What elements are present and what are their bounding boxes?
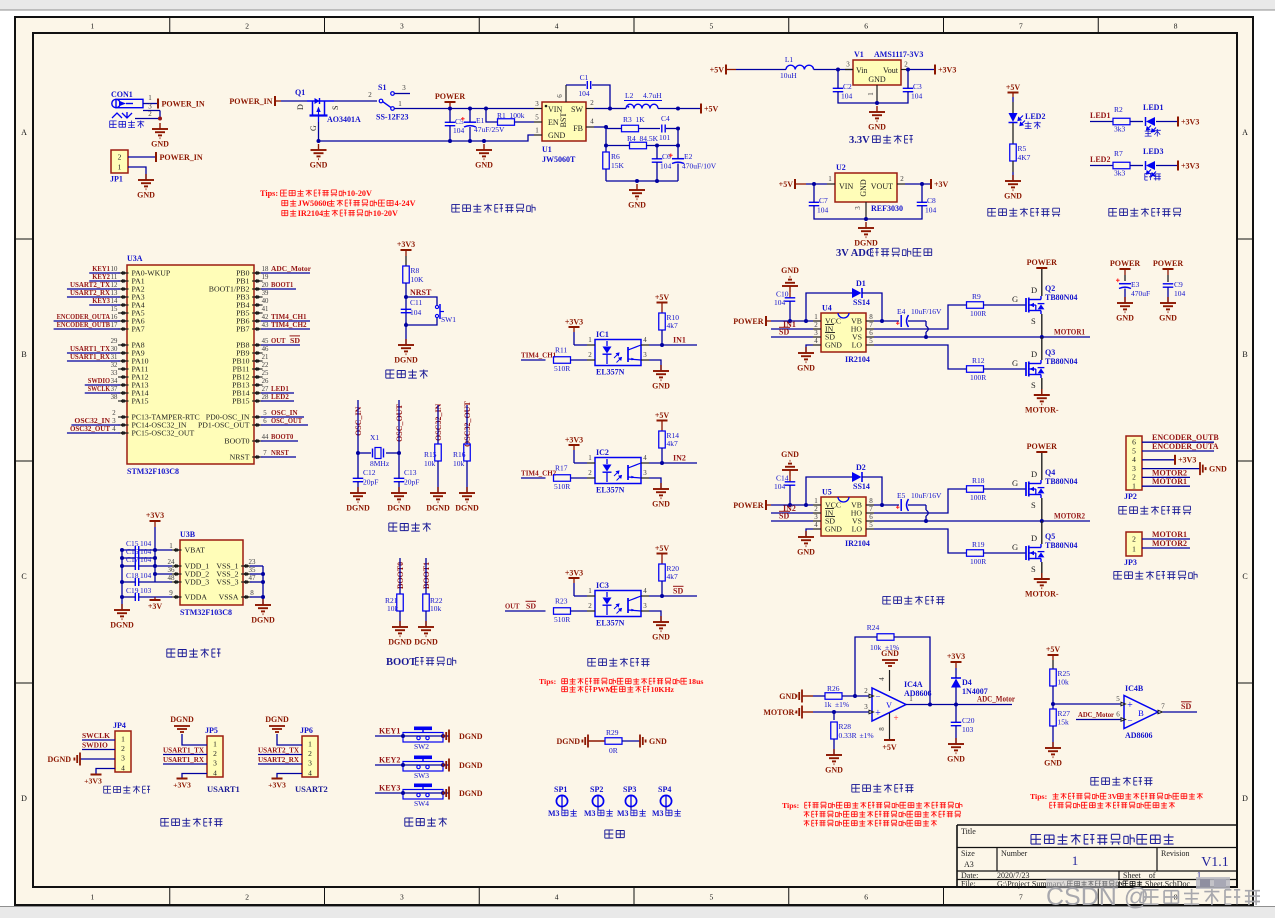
svg-text:DGND: DGND [455, 504, 479, 513]
svg-text:+3V3: +3V3 [173, 781, 191, 790]
svg-text:CSDN @: CSDN @ [1046, 883, 1149, 911]
svg-text:100R: 100R [970, 557, 986, 566]
mcu pin 23 VSS_1 [216, 558, 256, 571]
mcu pin 15 PA5 [111, 306, 145, 318]
svg-text:GND: GND [781, 450, 799, 459]
svg-text:R2: R2 [1114, 105, 1123, 114]
svg-text:LO: LO [852, 525, 863, 534]
label 电机驱动电路 [883, 596, 945, 605]
svg-text:G: G [309, 125, 318, 131]
pin 3 U4 [813, 329, 821, 337]
wire JP5 pin1 to DGND [182, 734, 207, 745]
pin 1 IC4A output [906, 695, 1012, 705]
svg-text:LO: LO [852, 341, 863, 350]
mcu pin 48 VDD_3 [168, 574, 210, 587]
power port +3V3 status led1 [1178, 117, 1199, 127]
svg-text:3V: 3V [1108, 792, 1118, 801]
transistor Q2 TB80N04 high side [1026, 284, 1077, 326]
wire Q1 source to S1 [334, 100, 377, 102]
pin 4 FB [586, 118, 606, 128]
svg-text:LED2: LED2 [1025, 112, 1045, 121]
junction D diode branch [804, 319, 808, 323]
wire Q2 drain to POWER [1041, 268, 1043, 296]
svg-text:101: 101 [659, 133, 671, 142]
wire SW4 to DGND [443, 792, 449, 794]
pin 1 wire CON1 [143, 94, 157, 104]
svg-text:2: 2 [900, 175, 904, 183]
ground GND under U5 [797, 531, 815, 557]
pin 3 wire CON1 [143, 103, 160, 111]
capacitor C9 104 [1163, 280, 1186, 303]
svg-text:JP4: JP4 [113, 721, 126, 730]
mcu pin 18 PB0 [236, 264, 311, 278]
svg-text:+5V: +5V [1046, 645, 1061, 654]
voltage reference U2 REF3030 [835, 163, 903, 213]
svg-text:B: B [1242, 350, 1247, 359]
svg-text:GND: GND [825, 766, 843, 775]
svg-text:48: 48 [168, 574, 176, 582]
ground DGND R16 [455, 487, 479, 513]
svg-text:18us: 18us [688, 677, 703, 686]
power port POWER at C9 [1153, 259, 1183, 282]
junction VS bootstrap [924, 519, 928, 523]
ground DGND R22 [414, 621, 438, 647]
ground GND IC3 [652, 616, 670, 642]
svg-text:VIN: VIN [548, 105, 562, 114]
ground MOTOR- under Q5 [1025, 573, 1059, 599]
svg-text:CON1: CON1 [111, 90, 133, 99]
capacitor C8 104 [866, 184, 937, 219]
wire E5 to VS with hop [908, 505, 928, 521]
ground GND op-amp pin4 [881, 649, 899, 666]
label 程序下载口 [104, 786, 150, 794]
svg-text:VBAT: VBAT [185, 546, 206, 555]
junction rail C5 [448, 139, 452, 143]
junction D4 output node [954, 703, 958, 707]
net label OSC32_IN vertical [434, 403, 443, 444]
junction VB node [880, 319, 884, 323]
svg-text:IR2104: IR2104 [845, 539, 870, 548]
net label MOTOR1 JP3 [1142, 530, 1190, 539]
svg-text:2: 2 [814, 321, 818, 329]
svg-text:MOTOR-: MOTOR- [1025, 406, 1059, 415]
svg-text:GND: GND [797, 364, 815, 373]
wire Q3 source down [1041, 378, 1043, 395]
svg-text:D: D [1031, 533, 1037, 543]
junction R4 left [604, 144, 608, 148]
svg-text:MOTOR1: MOTOR1 [1054, 328, 1085, 337]
svg-text:7: 7 [1019, 893, 1023, 902]
svg-text:+3V: +3V [934, 180, 949, 189]
svg-text:3: 3 [814, 329, 818, 337]
svg-text:+3V3: +3V3 [84, 777, 102, 786]
svg-text:TIM4_CH1: TIM4_CH1 [521, 351, 556, 360]
svg-text:D1: D1 [856, 279, 866, 288]
svg-text:SD: SD [526, 602, 537, 611]
svg-text:6: 6 [1116, 711, 1120, 719]
svg-text:BOOT: BOOT [386, 657, 416, 668]
svg-text:KEY2: KEY2 [379, 756, 400, 765]
svg-text:DGND: DGND [110, 621, 134, 630]
svg-text:M3: M3 [584, 809, 596, 818]
svg-text:9: 9 [169, 589, 173, 597]
switch SW3 push button [403, 756, 443, 781]
svg-text:TIM4_CH2: TIM4_CH2 [271, 320, 307, 329]
junction SW2 left [401, 734, 405, 738]
svg-text:DGND: DGND [459, 761, 483, 770]
pin 3 IC3 [641, 602, 661, 622]
transistor Q1 AO3401A P-MOSFET [295, 88, 361, 131]
svg-text:3: 3 [400, 22, 404, 31]
svg-text:3: 3 [1132, 464, 1136, 473]
svg-text:E4: E4 [897, 307, 906, 316]
junction gnd rail C6 [655, 179, 659, 183]
mcu pin 31 PA10 [67, 352, 149, 366]
standoff SP4 M3 [652, 785, 681, 818]
ground GND at JP1 [137, 174, 155, 200]
svg-text:Tips:: Tips: [782, 801, 803, 810]
optocoupler IC1 EL357N [595, 330, 641, 377]
svg-text:DGND: DGND [556, 737, 580, 746]
ground DGND SW2 sideways [443, 730, 482, 743]
power port +3V3 JP4 [84, 775, 102, 786]
svg-text:IC2: IC2 [596, 448, 609, 457]
power port +3V3 IC2 [565, 436, 583, 464]
title 直流电机双闭环控制系统 [1031, 834, 1174, 845]
pin 6 BST [556, 85, 566, 102]
wire Q2 source to VS line [1041, 314, 1043, 337]
label G gate Q5 [1012, 542, 1018, 552]
mcu pin 42 PB6 [236, 312, 310, 326]
mcu pin 19 PB1 [236, 274, 269, 286]
pin 1 U4 [813, 313, 821, 321]
net label KEY3 [375, 784, 403, 794]
svg-text:IC4B: IC4B [1125, 684, 1144, 693]
svg-text:3: 3 [854, 206, 862, 210]
svg-text:8: 8 [869, 313, 873, 321]
pin 5 U4 [866, 337, 874, 345]
junction SW3 right [441, 763, 445, 767]
op-amp IC4A AD8606 [872, 680, 932, 723]
svg-text:S: S [331, 106, 340, 110]
pin 1 IC1 [587, 336, 595, 345]
mcu pin 37 PA14 [85, 384, 149, 398]
svg-text:C12: C12 [363, 468, 376, 477]
capacitor E1 47uF/25V electrolytic [461, 109, 505, 142]
svg-text:104: 104 [925, 206, 937, 215]
resistor R14 4k7 [659, 431, 680, 463]
svg-text:470uF/10V: 470uF/10V [682, 162, 717, 171]
resistor R24 10k feedback [867, 623, 899, 652]
svg-text:OUT: OUT [505, 602, 520, 611]
svg-text:+: + [875, 708, 881, 719]
svg-text:DGND: DGND [387, 504, 411, 513]
mcu pin 3 PC14-OSC32_IN [71, 416, 186, 430]
power port +3V3 JP5 [173, 779, 191, 790]
svg-text:E1: E1 [476, 116, 485, 125]
svg-text:8: 8 [1174, 22, 1178, 31]
wire Q5 drain to VS [1041, 521, 1043, 544]
svg-text:MOTOR1: MOTOR1 [1152, 477, 1187, 486]
svg-text:S1: S1 [378, 83, 386, 92]
mcu pin 17 PA7 [54, 320, 145, 334]
net label USART1_TX [163, 745, 207, 754]
resistor R10 4k7 [659, 313, 680, 345]
svg-text:10k: 10k [430, 604, 442, 613]
mcu pin 22 PB11 [232, 362, 269, 374]
svg-text:+3V3: +3V3 [1181, 118, 1199, 127]
junction FB node [604, 125, 608, 129]
svg-text:+3V3: +3V3 [146, 511, 164, 520]
net label OSC32_OUT vertical [463, 401, 472, 447]
svg-text:PD1-OSC_OUT: PD1-OSC_OUT [198, 421, 250, 430]
svg-text:M3: M3 [548, 809, 560, 818]
mcu U3B STM32F103C8 power part [180, 530, 243, 617]
svg-text:470uF: 470uF [1131, 289, 1150, 298]
label 3V ADC电压基准电路 [836, 248, 932, 259]
svg-text:LED2: LED2 [271, 392, 289, 401]
ground GND IC2 [652, 483, 670, 509]
svg-text:GND: GND [825, 341, 842, 350]
svg-text:SS14: SS14 [853, 482, 870, 491]
transistor Q3 TB80N04 low side [1026, 348, 1077, 390]
ground GND input sideways [779, 690, 813, 703]
diode D4 1N4007 [951, 668, 988, 705]
power port +5V op-amp [882, 740, 897, 752]
svg-text:POWER_IN: POWER_IN [160, 153, 203, 162]
connector JP3 dc motor [1124, 532, 1142, 567]
svg-text:5: 5 [263, 410, 267, 417]
svg-text:104: 104 [660, 162, 672, 171]
mcu pin 5 PD0-OSC_IN [206, 408, 304, 422]
pin 2 wire CON1 [135, 110, 160, 119]
svg-text:7: 7 [869, 321, 873, 329]
svg-text:2: 2 [1132, 473, 1136, 482]
standoff SP1 M3 [548, 785, 577, 818]
svg-text:C2: C2 [843, 82, 852, 91]
capacitor C7 104 [809, 184, 866, 219]
standoff SP3 M3 [617, 785, 646, 818]
wire Q5 source down [1041, 562, 1043, 579]
svg-text:2: 2 [368, 91, 372, 99]
svg-text:POWER: POWER [1027, 258, 1057, 267]
svg-text:USART1_RX: USART1_RX [163, 755, 204, 764]
wire VS line MOTOR+ [874, 336, 1090, 338]
svg-text:4: 4 [643, 454, 647, 462]
svg-text:USART2: USART2 [295, 784, 328, 794]
net label MOTOR- input [763, 706, 813, 719]
svg-text:U3B: U3B [180, 530, 196, 539]
pin 2 IC2 [587, 469, 595, 478]
svg-text:104: 104 [841, 92, 853, 101]
svg-text:LED3: LED3 [1143, 147, 1163, 156]
svg-text:PB7: PB7 [236, 325, 250, 334]
junction divider tap [1051, 702, 1055, 706]
svg-text:D2: D2 [856, 463, 866, 472]
svg-text:TIM4_CH2: TIM4_CH2 [521, 469, 556, 478]
svg-text:USART1_TX: USART1_TX [163, 745, 204, 754]
wire POWER_IN to Q1 source [281, 100, 307, 102]
svg-text:D: D [1031, 285, 1037, 295]
svg-text:5: 5 [869, 337, 873, 345]
svg-text:2: 2 [588, 602, 592, 610]
capacitor C15 104 [122, 539, 155, 554]
wire POWER to pin1 [790, 504, 813, 506]
svg-text:JP3: JP3 [1124, 558, 1137, 567]
svg-text:ADC_Motor: ADC_Motor [977, 695, 1015, 704]
svg-text:POWER_IN: POWER_IN [229, 97, 272, 106]
net label OUT_SD into IC3 [505, 601, 546, 611]
svg-text:100R: 100R [970, 309, 986, 318]
svg-text:JW5060t: JW5060t [298, 199, 330, 208]
label 电源降压模块电路 [452, 204, 535, 213]
svg-text:GND: GND [1209, 464, 1227, 473]
resistor R4 84.5K [606, 134, 678, 149]
svg-text:6: 6 [864, 22, 868, 31]
svg-text:SS14: SS14 [853, 298, 870, 307]
junction +3V3 rail [153, 548, 157, 552]
svg-text:MOTOR2: MOTOR2 [1152, 468, 1187, 477]
svg-text:2: 2 [245, 22, 249, 31]
svg-text:±1%: ±1% [860, 731, 874, 740]
svg-text:20pF: 20pF [363, 478, 378, 487]
svg-text:15k: 15k [1058, 718, 1070, 727]
svg-text:AMS1117-3V3: AMS1117-3V3 [874, 50, 923, 59]
svg-text:SD: SD [779, 512, 789, 521]
ground DGND VSS rail [251, 599, 275, 625]
junction VSS rail [261, 572, 265, 576]
capacitor C5 104 [445, 109, 465, 142]
svg-text:4: 4 [814, 337, 818, 345]
wire VDDA to +3V [155, 596, 172, 598]
svg-text:DGND: DGND [414, 638, 438, 647]
svg-text:PA15: PA15 [132, 397, 149, 406]
junction C16 right [153, 556, 157, 560]
svg-text:VSSA: VSSA [219, 593, 239, 602]
svg-text:+5V: +5V [655, 544, 670, 553]
svg-text:4k7: 4k7 [667, 572, 679, 581]
svg-text:R3 1K: R3 1K [623, 115, 645, 124]
ground DGND SW3 sideways [443, 759, 482, 772]
ground GND at CON1 [151, 123, 169, 149]
net label SWDIO JP4 [82, 740, 115, 749]
junction VS at mosfets [1040, 519, 1044, 523]
mcu pin 4 PC15-OSC32_OUT [67, 424, 195, 438]
junction decoupling rail [120, 548, 124, 552]
svg-text:LED1: LED1 [1143, 103, 1163, 112]
svg-text:1: 1 [814, 313, 818, 321]
svg-text:21: 21 [262, 354, 269, 361]
svg-text:JP2: JP2 [1124, 492, 1137, 501]
svg-text:POWER: POWER [733, 317, 763, 326]
wire JP5 pin4 to +3V3 [182, 774, 207, 779]
junction IC3 output [660, 594, 664, 598]
power port +5V IC2 pullup [655, 411, 670, 431]
svg-text:+5V: +5V [710, 66, 725, 75]
connector JP4 program port [113, 721, 131, 772]
svg-text:GND: GND [868, 123, 886, 132]
pin 3 GND of U2 [854, 202, 866, 219]
svg-text:Title: Title [961, 827, 976, 836]
svg-text:4K7: 4K7 [1018, 153, 1031, 162]
wire +3V3 rail to VBAT/VDD [155, 550, 172, 582]
svg-text:3k3: 3k3 [1114, 125, 1126, 134]
net label LED1 status [1090, 111, 1113, 122]
standoff SP2 M3 [584, 785, 613, 818]
wire Q3 drain to VS [1041, 337, 1043, 360]
led LED1 red [1143, 103, 1177, 137]
svg-text:TB80N04: TB80N04 [1045, 477, 1077, 486]
svg-text:PB15: PB15 [232, 397, 249, 406]
wire E4 to VS with hop [908, 321, 928, 337]
power port POWER_IN at CON1 [158, 99, 205, 109]
svg-text:SW2: SW2 [414, 742, 429, 751]
wire tap to op-amp + [1053, 703, 1121, 705]
pin 8 U5 [866, 497, 874, 505]
switch S1 SS-12F23 [368, 83, 410, 122]
pin 4 IC4A [878, 670, 890, 691]
junction E2 top [676, 144, 680, 148]
svg-text:EL357N: EL357N [596, 368, 625, 377]
svg-text:29: 29 [111, 338, 118, 345]
mcu pin 16 PA6 [54, 312, 145, 326]
svg-text:+3V3: +3V3 [565, 569, 583, 578]
svg-text:+5V: +5V [882, 743, 897, 752]
mcu U3A STM32F103C8 [127, 254, 254, 476]
resistor R7 3k3 [1113, 149, 1143, 178]
power port +3V3 IC3 [565, 569, 583, 597]
svg-text:STM32F103C8: STM32F103C8 [180, 608, 232, 617]
junction VS at mosfets [1040, 335, 1044, 339]
resistor R6 15K [603, 152, 625, 181]
power port +3V3 D4 [947, 652, 965, 668]
mcu pin 43 PB7 [236, 320, 310, 334]
wire +5V to U2 [806, 183, 827, 185]
mcu pin 47 VSS_3 [216, 574, 256, 587]
wire SW2 to DGND [443, 735, 449, 737]
svg-text:R29: R29 [606, 728, 619, 737]
svg-text:19: 19 [262, 274, 269, 281]
svg-text:2: 2 [814, 505, 818, 513]
svg-text:GND: GND [881, 649, 899, 658]
svg-text:8: 8 [878, 727, 886, 731]
transistor Q4 TB80N04 high side [1026, 468, 1077, 510]
svg-text:USART1: USART1 [207, 784, 240, 794]
label 铜柱 [605, 830, 625, 838]
wire Q4 source to VS line [1041, 498, 1043, 521]
resistor R19 100R [967, 540, 1027, 566]
mcu pin 33 PA12 [111, 370, 149, 382]
pin 2 U4 [813, 321, 821, 329]
svg-text:ENCODER_OUTA: ENCODER_OUTA [1152, 442, 1219, 451]
svg-text:ADC_Motor: ADC_Motor [1078, 710, 1115, 719]
svg-text:GND: GND [779, 692, 797, 701]
mcu pin 35 VSS_2 [216, 566, 256, 579]
junction E1 top [468, 107, 472, 111]
svg-text:DGND: DGND [47, 755, 71, 764]
junction gnd rail stub [635, 179, 639, 183]
svg-text:U1: U1 [542, 145, 552, 154]
svg-text:R5: R5 [1018, 144, 1027, 153]
wire L1 to V1 VIN [814, 69, 853, 71]
svg-text:SD: SD [1181, 702, 1191, 711]
resistor R21 10k [385, 594, 403, 627]
label 电源指示灯电路 [988, 208, 1060, 217]
ground GND above C14 [781, 450, 799, 476]
net label SD [673, 586, 684, 595]
svg-text:4k7: 4k7 [667, 321, 679, 330]
power port +5V IC3 pullup [655, 544, 670, 564]
